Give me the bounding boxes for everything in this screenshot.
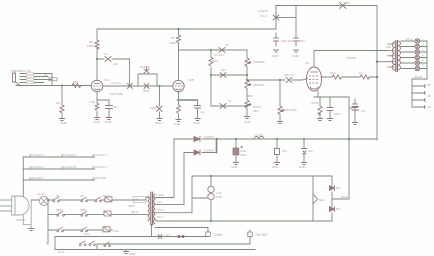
svg-text:100u: 100u — [334, 112, 341, 116]
svg-text:R7: R7 — [171, 36, 175, 40]
svg-text:BIAS: BIAS — [341, 195, 348, 199]
svg-text:HEATER: HEATER — [94, 176, 107, 180]
svg-text:X2-1: X2-1 — [406, 37, 413, 41]
svg-text:6.3V: 6.3V — [216, 195, 222, 199]
svg-text:GND: GND — [129, 252, 137, 256]
svg-text:T-260: T-260 — [156, 193, 164, 197]
svg-text:D4: D4 — [336, 207, 340, 211]
svg-text:W6.3: W6.3 — [157, 208, 164, 212]
svg-text:470R: 470R — [311, 101, 319, 105]
svg-text:C2: C2 — [104, 52, 108, 56]
svg-text:FC-2: FC-2 — [260, 14, 267, 18]
svg-text:230V: 230V — [128, 204, 135, 208]
svg-text:22n: 22n — [221, 68, 226, 72]
svg-text:MIDDLE: MIDDLE — [253, 83, 264, 87]
svg-text:1M: 1M — [56, 101, 61, 105]
svg-text:450V: 450V — [298, 39, 305, 43]
svg-text:C5: C5 — [225, 43, 229, 47]
svg-text:0.1u: 0.1u — [113, 229, 119, 233]
svg-text:22n: 22n — [113, 62, 118, 66]
svg-text:1N4007: 1N4007 — [204, 149, 215, 153]
svg-text:C3 22n: C3 22n — [111, 81, 121, 85]
svg-text:6.3VAC-2: 6.3VAC-2 — [63, 153, 76, 157]
svg-text:GND: GND — [292, 54, 300, 58]
svg-text:6.3VAC-1: 6.3VAC-1 — [31, 153, 44, 157]
svg-text:25K: 25K — [253, 109, 258, 113]
svg-text:D3: D3 — [336, 186, 340, 190]
svg-text:GND: GND — [105, 120, 113, 124]
svg-text:47u: 47u — [282, 149, 287, 153]
svg-text:C-MOD: C-MOD — [258, 9, 269, 13]
svg-text:1u: 1u — [201, 110, 205, 114]
svg-text:50Hz: 50Hz — [131, 210, 139, 214]
svg-text:450V: 450V — [240, 153, 247, 157]
svg-text:GND: GND — [231, 165, 239, 169]
svg-text:56K: 56K — [213, 59, 218, 63]
svg-text:47n: 47n — [361, 109, 366, 113]
svg-text:PREAMP IN CH: PREAMP IN CH — [11, 69, 31, 73]
svg-text:T6L B07: T6L B07 — [255, 233, 268, 237]
svg-text:C7: C7 — [228, 99, 232, 103]
svg-text:T-0: T-0 — [157, 200, 162, 204]
svg-text:TREBLE: TREBLE — [253, 60, 265, 64]
svg-text:100K: 100K — [169, 41, 176, 45]
svg-text:S1: S1 — [56, 194, 60, 198]
svg-text:PRI: PRI — [386, 45, 391, 49]
svg-text:100+100: 100+100 — [281, 39, 293, 43]
svg-text:250VAC: 250VAC — [16, 218, 26, 222]
svg-text:47u: 47u — [308, 149, 313, 153]
svg-text:PT: PT — [134, 198, 138, 202]
svg-text:VOLUME: VOLUME — [110, 92, 123, 96]
svg-text:X1-2: X1-2 — [58, 250, 65, 254]
svg-text:GND: GND — [193, 121, 201, 125]
svg-text:22u: 22u — [113, 105, 118, 109]
svg-text:SLOPE: SLOPE — [140, 65, 150, 69]
svg-text:GND: GND — [272, 165, 280, 169]
svg-text:GND: GND — [299, 165, 307, 169]
svg-text:GND: GND — [60, 121, 68, 125]
svg-text:V1A: V1A — [104, 78, 110, 82]
svg-text:GND: GND — [174, 122, 182, 126]
svg-text:250p: 250p — [143, 89, 150, 93]
svg-text:1N4007: 1N4007 — [204, 135, 215, 139]
svg-text:250K: 250K — [246, 94, 253, 98]
svg-text:C8 47n: C8 47n — [284, 73, 294, 77]
svg-text:W-0: W-0 — [157, 215, 163, 219]
svg-text:C4 22n: C4 22n — [214, 53, 224, 57]
svg-text:V2: V2 — [305, 61, 309, 65]
svg-text:1.5K: 1.5K — [89, 100, 95, 104]
svg-text:6.3VAC-1: 6.3VAC-1 — [94, 153, 107, 157]
svg-text:1K: 1K — [359, 71, 363, 75]
svg-text:S2B: S2B — [80, 208, 86, 212]
svg-text:T5467: T5467 — [213, 233, 223, 237]
svg-text:L1 5H: L1 5H — [255, 133, 263, 137]
svg-text:220K: 220K — [150, 106, 157, 110]
svg-text:NTC: NTC — [103, 194, 110, 198]
svg-text:GND: GND — [93, 120, 101, 124]
svg-text:GND: GND — [272, 54, 280, 58]
svg-text:NE2: NE2 — [319, 198, 325, 202]
svg-text:68K: 68K — [73, 80, 78, 84]
svg-text:GND: GND — [244, 120, 252, 124]
svg-text:6.3VAC-B: 6.3VAC-B — [63, 165, 76, 169]
svg-text:CT: CT — [166, 233, 170, 237]
svg-text:SPKR: SPKR — [414, 75, 423, 79]
svg-text:MASTER: MASTER — [284, 108, 297, 112]
svg-text:V1B: V1B — [188, 78, 194, 82]
svg-text:6.3VAC-2: 6.3VAC-2 — [31, 165, 44, 169]
svg-text:GND: GND — [155, 121, 163, 125]
svg-text:150K: 150K — [87, 44, 94, 48]
svg-text:HEATER: HEATER — [31, 176, 44, 180]
svg-text:F1 2A: F1 2A — [37, 192, 45, 196]
svg-text:6.3VAC-2: 6.3VAC-2 — [94, 165, 107, 169]
svg-text:R15: R15 — [330, 71, 336, 75]
svg-text:R1: R1 — [44, 73, 48, 77]
svg-text:S2: S2 — [80, 194, 84, 198]
svg-text:S2A: S2A — [84, 232, 90, 236]
svg-text:230V: 230V — [56, 208, 63, 212]
svg-text:OT50W: OT50W — [346, 56, 357, 60]
svg-text:S3: S3 — [346, 1, 350, 5]
